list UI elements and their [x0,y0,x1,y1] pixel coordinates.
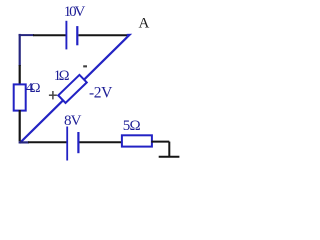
wire left vertical (black segment above 4ohm box) [19,65,21,85]
wire bottom horizontal (black battery to 5ohm box) [80,141,123,143]
svg-text:4Ω: 4Ω [26,81,41,96]
svg-text:5Ω: 5Ω [123,118,141,134]
wire bottom right horizontal [151,141,169,143]
polarity minus sign [83,65,87,67]
wire top horizontal (black segment battery to node A) [79,34,128,36]
wire bottom horizontal (black to battery) [28,141,67,143]
bottom-left junction (blue) [19,141,29,143]
battery B1 10V long plate [65,21,67,50]
resistor R2 1ohm (rotated box on diagonal) [58,75,87,103]
wire top-left horizontal (blue segment) [19,34,34,36]
wire left vertical (navy segment) [19,34,21,66]
resistor R3 5ohm box [122,135,152,146]
wire left vertical (black segment below 4ohm box) [19,110,21,141]
svg-text:10V: 10V [64,4,86,20]
svg-text:8V: 8V [64,113,82,129]
svg-text:-2V: -2V [89,85,113,102]
svg-text:A: A [139,15,150,31]
wire to ground vertical [168,142,170,157]
battery B2 8V long plate [66,127,68,161]
polarity plus sign [49,91,57,99]
battery B1 10V short plate [76,26,78,45]
wire top horizontal (black segment to battery) [33,34,66,36]
wire diagonal from node A to bottom-left junction [20,35,130,143]
resistor R1 4ohm box [14,84,26,110]
ground bar [159,156,180,158]
svg-text:1Ω: 1Ω [54,68,70,84]
battery B2 8V short plate [77,132,79,153]
